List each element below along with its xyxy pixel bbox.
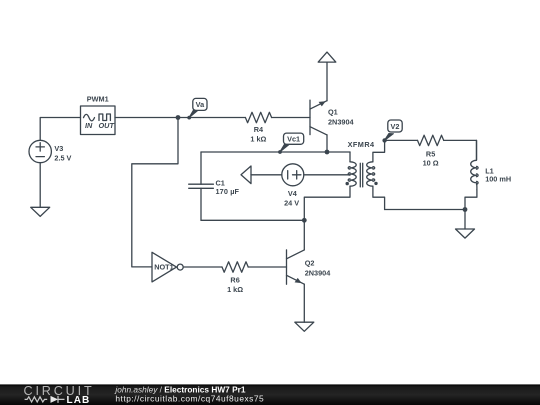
- wire V4 left to arrow flag: [251, 174, 282, 176]
- svg-text:V3: V3: [54, 144, 63, 153]
- svg-text:NOT1: NOT1: [154, 263, 173, 272]
- wire R4 to Q1 base: [272, 117, 310, 119]
- svg-text:1 kΩ: 1 kΩ: [227, 285, 243, 294]
- primary top lead: [349, 152, 351, 162]
- voltage source V4: [282, 164, 304, 208]
- svg-text:R4: R4: [254, 125, 264, 134]
- wire R6 to Q2 base: [248, 266, 286, 268]
- svg-text:1 kΩ: 1 kΩ: [250, 134, 266, 143]
- ground (right): [456, 229, 475, 238]
- logo zigzag + diode: [25, 397, 48, 402]
- middle rail wire C1 to XFMR primary: [201, 151, 350, 153]
- svg-text:2N3904: 2N3904: [305, 268, 332, 277]
- svg-text:IN: IN: [85, 121, 93, 130]
- wire NOT1 to R6: [183, 266, 222, 268]
- phase dot secondary: [374, 182, 377, 185]
- svg-text:Q2: Q2: [305, 258, 315, 267]
- core: [360, 163, 362, 187]
- svg-text:PWM1: PWM1: [87, 95, 109, 104]
- voltage source V3: [29, 140, 72, 162]
- svg-text:http://circuitlab.com/cq74uf8u: http://circuitlab.com/cq74uf8uexs75: [115, 394, 264, 404]
- svg-text:V4: V4: [288, 189, 298, 198]
- ground (V3): [31, 207, 50, 216]
- phase dot primary: [346, 182, 349, 185]
- svg-text:V2: V2: [391, 122, 400, 131]
- transistor Q2: [287, 250, 332, 284]
- probe flag Va: [187, 98, 207, 119]
- NOT gate NOT1: [152, 252, 183, 282]
- resistor R4: [245, 112, 271, 143]
- node junction ground rail: [463, 207, 468, 212]
- transistor Q1: [310, 100, 355, 135]
- svg-text:OUT: OUT: [99, 121, 115, 130]
- resistor R6: [222, 262, 248, 294]
- secondary winding: [367, 162, 373, 186]
- secondary top lead: [373, 140, 385, 161]
- footer bar: [0, 384, 540, 405]
- node junction Q1/middle rail: [325, 150, 330, 155]
- svg-text:XFMR4: XFMR4: [348, 140, 375, 149]
- probe flag Vc1: [278, 133, 304, 154]
- probe flag V2: [382, 120, 402, 143]
- transformer XFMR4: [304, 140, 384, 220]
- wire PWM1 to R4: [115, 117, 245, 119]
- arrow flag (left): [241, 166, 251, 184]
- wire R5 to L1: [444, 140, 477, 160]
- svg-text:2.5 V: 2.5 V: [54, 153, 71, 162]
- bottom rail C1 to junction: [201, 219, 304, 221]
- capacitor C1: [189, 152, 240, 220]
- svg-text:100 mH: 100 mH: [485, 175, 511, 184]
- node junction bottom rail: [302, 218, 307, 223]
- wire Q1 emitter to power flag: [326, 62, 328, 101]
- wire bottom junction to Q2 collector: [303, 220, 305, 250]
- svg-text:2N3904: 2N3904: [328, 117, 355, 126]
- secondary bottom rail: [385, 209, 465, 211]
- svg-text:10 Ω: 10 Ω: [423, 159, 439, 168]
- svg-text:Vc1: Vc1: [287, 135, 300, 144]
- svg-text:LAB: LAB: [67, 395, 91, 405]
- feedback wire Va node to NOT1 input: [132, 118, 178, 267]
- wire Q1 collector to middle rail: [326, 135, 328, 152]
- wire V3 top to PWM1: [40, 118, 80, 141]
- svg-text:Q1: Q1: [328, 107, 338, 116]
- resistor R5: [418, 135, 444, 167]
- node junction Va: [176, 115, 181, 120]
- wire to ground (right): [464, 210, 466, 230]
- svg-text:R6: R6: [230, 276, 239, 285]
- primary winding: [350, 162, 356, 186]
- wire V4 right to XFMR primary: [304, 174, 350, 176]
- inductor L1: [465, 140, 511, 209]
- wire Q2 emitter to ground: [303, 284, 305, 322]
- svg-text:170 µF: 170 µF: [216, 187, 240, 196]
- secondary bottom lead: [373, 186, 385, 209]
- primary bottom lead: [304, 186, 350, 220]
- wire V3 bottom to ground: [39, 163, 41, 208]
- svg-text:R5: R5: [426, 149, 435, 158]
- ground (Q2): [295, 322, 314, 331]
- wire V2 to R5: [385, 139, 418, 141]
- svg-text:Va: Va: [196, 100, 205, 109]
- svg-text:24 V: 24 V: [284, 199, 299, 208]
- power supply flag: [318, 52, 336, 62]
- PWM source PWM1: [81, 95, 116, 135]
